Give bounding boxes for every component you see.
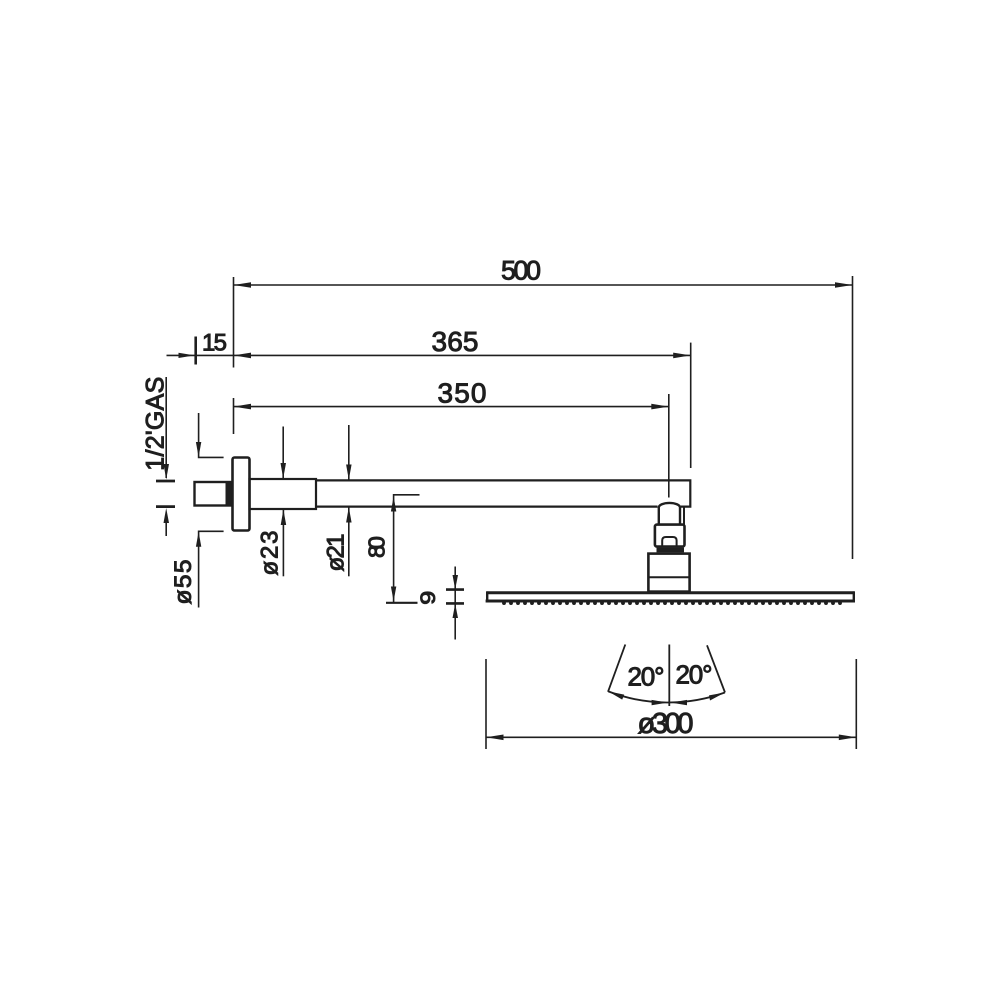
svg-text:ø55: ø55 [170, 560, 197, 605]
shower arm thin section Ø21 [316, 480, 690, 506]
plate left cap [486, 591, 488, 602]
shower plate bottom edge [486, 600, 855, 603]
plate right cap [853, 591, 855, 602]
svg-text:1/2'GAS: 1/2'GAS [142, 377, 170, 471]
svg-text:350: 350 [438, 378, 487, 409]
dimension Ø23 arrows [282, 427, 284, 577]
dimension 350 line [234, 394, 669, 498]
angle left ray [608, 645, 625, 692]
dimension 80 arrows [391, 497, 396, 602]
swivel inner window [662, 537, 676, 546]
svg-text:ø300: ø300 [638, 708, 694, 740]
wall nipple 1/2 GAS thread [195, 482, 233, 506]
dimension 1/2 GAS ticks [156, 481, 175, 507]
hidden elbow edge [683, 507, 685, 525]
angle arc [608, 691, 725, 702]
svg-text:9: 9 [417, 591, 440, 605]
shower arm thick section Ø23 [250, 479, 317, 509]
dimension 1/2 GAS arrows [164, 464, 170, 523]
svg-text:20°: 20° [676, 660, 713, 690]
svg-text:20°: 20° [628, 662, 665, 692]
dimension 9 line [454, 567, 456, 640]
svg-text:ø23: ø23 [257, 531, 284, 576]
dimension Ø300 line [486, 659, 856, 749]
svg-text:500: 500 [501, 256, 541, 286]
wall flange Ø55 [233, 458, 250, 531]
hub divider line [648, 576, 689, 578]
angle right ray [707, 645, 725, 692]
dimension 350 arrows [234, 404, 669, 410]
dimension 9 arrows [453, 575, 459, 618]
dimension 15 tick [194, 337, 197, 365]
svg-text:365: 365 [432, 326, 479, 357]
angle arc arrows [608, 691, 725, 705]
svg-text:80: 80 [364, 536, 390, 558]
dimension 365 arrows [234, 353, 691, 359]
dimension Ø55 top pointer [199, 413, 224, 457]
swivel middle block [655, 525, 685, 547]
dimension Ø21 arrows [348, 425, 350, 576]
dimension 500 line [234, 276, 853, 559]
ball joint dark band [657, 548, 685, 553]
dimension 9 ticks [446, 590, 464, 604]
dimension 1/2 GAS line [165, 377, 167, 536]
dimension 80 bracket [394, 495, 420, 603]
svg-text:15: 15 [202, 330, 227, 357]
swivel axis line [668, 645, 670, 707]
spray nozzles [502, 601, 842, 605]
svg-text:ø21: ø21 [323, 534, 350, 572]
dimension 365 line [167, 343, 691, 468]
dimension 500 arrows [234, 282, 853, 288]
dimension 15 arrow [179, 353, 195, 358]
shower head hub block [648, 554, 689, 592]
shower plate top edge [487, 591, 855, 594]
dimension Ø55 bottom pointer [199, 531, 224, 607]
dimension 80 foot [386, 602, 418, 604]
swivel dome [659, 503, 680, 525]
dimension Ø300 arrows [486, 735, 856, 741]
